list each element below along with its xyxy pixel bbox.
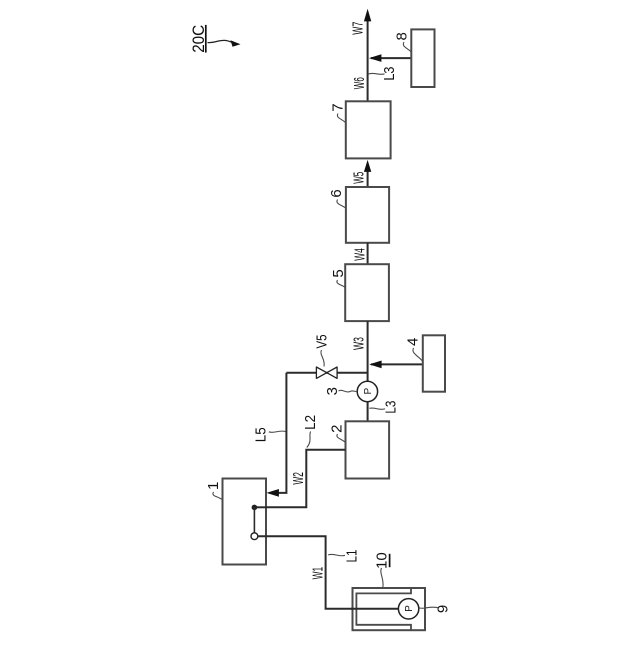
leader 5 [337, 280, 346, 288]
svg-text:2: 2 [329, 425, 346, 433]
svg-text:W3: W3 [351, 337, 368, 350]
svg-text:P: P [404, 605, 415, 612]
svg-text:8: 8 [394, 32, 411, 40]
pump 3 [357, 381, 377, 401]
box 8 [411, 29, 434, 87]
wire W1 / L1 [258, 536, 399, 609]
svg-text:L3: L3 [383, 401, 400, 414]
box 6 [346, 187, 389, 243]
level sensor dot in box 1 [252, 505, 258, 511]
svg-text:V5: V5 [314, 335, 331, 349]
leader 2 [337, 434, 345, 442]
wire L2 segment inside box 1 [254, 506, 267, 508]
leader L5 [269, 431, 286, 432]
valve V5 [316, 367, 337, 378]
leader 4 [413, 348, 422, 361]
wire L3 feed from box 8 [371, 57, 411, 59]
svg-text:4: 4 [405, 338, 422, 346]
label 10 [374, 552, 391, 569]
wire W7 outlet line [367, 14, 369, 101]
wire L2 [254, 450, 345, 508]
svg-text:7: 7 [330, 103, 347, 111]
wire feed from box 4 [371, 363, 423, 365]
svg-text:W5: W5 [351, 172, 368, 184]
wire W3 [367, 321, 369, 382]
arrowhead W2 into box 1 [266, 489, 279, 497]
arrowhead W7 [364, 9, 371, 22]
wire W1 inside tank [351, 608, 398, 610]
svg-text:P: P [363, 388, 374, 395]
leader 3 [339, 390, 358, 392]
pump 9 [398, 599, 418, 619]
box 5 [345, 264, 389, 321]
svg-text:L2: L2 [302, 415, 319, 430]
svg-text:W2: W2 [290, 472, 307, 485]
wire L5 branch [278, 373, 287, 493]
leader 8 [403, 42, 410, 52]
figure label 20C [189, 25, 241, 53]
sensor stem [253, 507, 255, 533]
wire W5 [367, 169, 369, 187]
open circle in box 1 [251, 533, 258, 540]
arrowhead W5 [364, 160, 371, 172]
svg-text:10: 10 [374, 552, 391, 569]
svg-text:5: 5 [330, 269, 347, 277]
svg-text:6: 6 [328, 189, 345, 197]
svg-text:L5: L5 [253, 427, 270, 442]
wire W4 [367, 243, 369, 264]
svg-text:W4: W4 [352, 248, 369, 261]
wire pump 3 to box 2 [367, 402, 369, 422]
svg-text:L1: L1 [343, 550, 360, 563]
leader 9 [419, 607, 438, 608]
box 2 [346, 421, 390, 478]
leader V5 [321, 350, 324, 367]
box 1 [223, 479, 267, 565]
leader L3 (upper) [368, 73, 384, 74]
box 7 [346, 101, 391, 158]
wire valve branch [286, 372, 367, 374]
arrowhead box 4 feed [369, 361, 381, 369]
box 4 [423, 335, 445, 391]
leader 10 [381, 568, 383, 588]
leader 1 [213, 492, 222, 500]
svg-text:1: 1 [205, 482, 222, 490]
svg-text:W1: W1 [310, 567, 327, 580]
svg-text:3: 3 [324, 387, 341, 395]
svg-text:W7: W7 [350, 22, 367, 35]
leader L1 [328, 554, 345, 555]
leader 7 [337, 114, 345, 123]
leader 6 [337, 200, 346, 209]
tank 10 outer wall [353, 588, 426, 630]
tank 10 inner wall [356, 589, 411, 630]
svg-text:9: 9 [435, 605, 452, 613]
svg-text:W6: W6 [351, 77, 368, 89]
arrowhead L3 feed [369, 54, 382, 62]
leader L2 [307, 432, 311, 448]
leader L3 (lower) [369, 408, 385, 409]
